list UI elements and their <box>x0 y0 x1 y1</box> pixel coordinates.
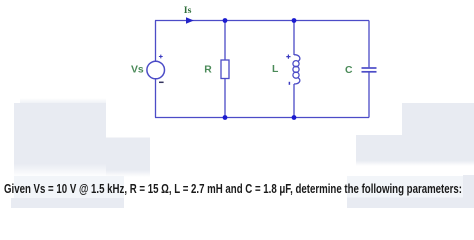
svg-text:C: C <box>345 65 353 76</box>
svg-text:L: L <box>272 64 279 75</box>
wire L branch upper <box>293 21 295 56</box>
inductor L <box>286 55 300 85</box>
wire left lower <box>155 79 157 118</box>
wire left upper <box>155 21 157 62</box>
background watermark right bottom strip <box>347 198 467 209</box>
background watermark right column <box>463 175 474 208</box>
node bottom R <box>223 115 228 120</box>
wire L branch lower <box>293 84 295 118</box>
background watermark left bottom strip <box>11 198 124 208</box>
resistor R <box>221 60 229 79</box>
svg-text:Vs: Vs <box>131 65 144 76</box>
wire top <box>155 20 369 22</box>
svg-text:R: R <box>204 64 212 75</box>
svg-text:Given Vs = 10 V @ 1.5 kHz, R =: Given Vs = 10 V @ 1.5 kHz, R = 15 Ω, L =… <box>4 182 462 196</box>
node top L <box>292 18 297 23</box>
wire bottom <box>155 117 369 119</box>
svg-text:Is: Is <box>184 5 192 16</box>
current arrow Is <box>186 17 194 24</box>
node bottom L <box>292 115 297 120</box>
wire R branch upper <box>224 21 226 61</box>
background watermark right faint band <box>347 176 474 198</box>
background watermark left faint band <box>14 176 124 198</box>
voltage source Vs <box>147 55 165 83</box>
wire right upper <box>368 21 370 68</box>
wire R branch lower <box>224 79 226 118</box>
node top R <box>223 18 228 23</box>
background watermark left block <box>14 98 150 177</box>
background watermark right block <box>356 103 474 166</box>
capacitor C <box>362 68 377 72</box>
wire right lower <box>368 72 370 117</box>
